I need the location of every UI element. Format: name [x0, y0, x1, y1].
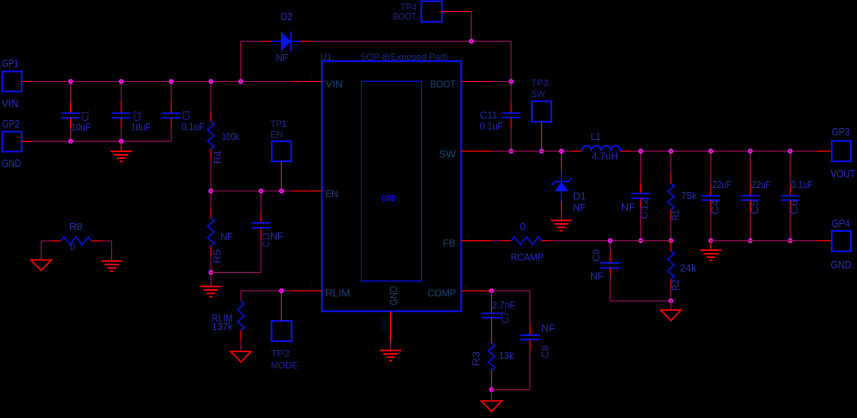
zener diode D1: [560, 151, 562, 171]
node EN-TP1: [280, 189, 284, 193]
connector GP2: [3, 132, 22, 152]
ground at U1 GND pin: [380, 349, 401, 351]
svg-text:7: 7: [309, 283, 313, 290]
pin RLIM of U1: [292, 290, 322, 292]
resistor R1 75k: [670, 151, 672, 173]
svg-text:GP2: GP2: [2, 119, 20, 131]
pin SW of U1: [461, 150, 491, 152]
svg-text:R4: R4: [213, 150, 224, 164]
node R2-C9: [669, 299, 673, 303]
svg-text:13k: 13k: [499, 351, 515, 362]
connector GP3: [817, 150, 832, 152]
node VOUT-C4: [709, 149, 713, 153]
ground at R5: [200, 286, 221, 288]
svg-text:TP2: TP2: [271, 349, 290, 359]
svg-text:FB: FB: [443, 238, 456, 250]
capacitor C7 2.7nF: [491, 291, 493, 314]
svg-text:10uF: 10uF: [131, 122, 151, 133]
test point TP3: [532, 101, 552, 121]
svg-text:TP3: TP3: [531, 78, 548, 88]
pin VIN of U1: [292, 81, 322, 83]
ground at RLIM: [231, 351, 251, 362]
svg-text:2.7nF: 2.7nF: [492, 301, 515, 312]
node FB-R1: [669, 239, 673, 243]
svg-text:D1: D1: [573, 192, 586, 203]
resistor R5 NF: [210, 191, 212, 208]
pin FB of U1: [461, 240, 491, 242]
svg-text:C5: C5: [750, 199, 761, 214]
svg-text:EN: EN: [326, 188, 339, 200]
node R3-C8: [490, 388, 494, 392]
wire GND bus left: [32, 140, 172, 142]
svg-text:RLIM: RLIM: [325, 287, 350, 299]
svg-text:C4: C4: [711, 199, 722, 214]
capacitor C1: [70, 82, 72, 103]
capacitor C12 NF: [640, 151, 642, 183]
capacitor C9 NF: [609, 241, 611, 253]
wire GND pin to ground: [390, 341, 392, 351]
node GND-C6: [788, 239, 792, 243]
node VIN-R4: [209, 80, 213, 84]
svg-text:NF: NF: [590, 271, 604, 282]
svg-text:EN: EN: [271, 130, 284, 140]
wire D2 riser: [240, 41, 242, 81]
svg-text:COMP: COMP: [428, 287, 456, 299]
svg-text:NF: NF: [573, 203, 586, 214]
svg-text:4.7uH: 4.7uH: [592, 151, 618, 162]
svg-text:GND: GND: [380, 317, 389, 331]
svg-text:NF: NF: [221, 232, 234, 243]
ground at output: [710, 241, 712, 251]
wire to D2 anode: [241, 40, 262, 42]
svg-text:C1: C1: [81, 110, 92, 121]
svg-text:R5: R5: [213, 249, 224, 264]
svg-text:BOOT: BOOT: [393, 12, 417, 22]
svg-text:VOUT: VOUT: [831, 168, 856, 180]
svg-text:137k: 137k: [212, 322, 234, 333]
pin EN of U1: [292, 190, 322, 192]
capacitor C3: [170, 82, 172, 103]
wire VIN bus: [32, 81, 292, 83]
svg-text:RCAMP: RCAMP: [511, 252, 544, 263]
svg-text:R8: R8: [69, 222, 83, 233]
resistor R4 100k: [210, 82, 212, 112]
svg-text:GND: GND: [388, 286, 400, 306]
svg-text:C11: C11: [480, 111, 498, 122]
svg-text:VIN: VIN: [2, 98, 19, 110]
capacitor C8 NF: [529, 291, 531, 325]
ground at R8 left: [31, 260, 51, 271]
svg-text:22uF: 22uF: [752, 180, 771, 191]
svg-text:0.1uF: 0.1uF: [480, 121, 503, 132]
IC U1 body: [322, 61, 462, 311]
test point TP4: [421, 1, 442, 22]
svg-text:C12: C12: [639, 197, 650, 219]
wire BOOT riser: [510, 41, 512, 102]
node SW-C11: [509, 149, 512, 153]
svg-text:75k: 75k: [681, 191, 698, 202]
resistor RLIM 137k: [240, 291, 242, 301]
svg-text:TP1: TP1: [271, 119, 287, 129]
node VOUT-C12: [639, 149, 643, 153]
resistor R3 13k: [488, 343, 495, 371]
wire RLIM net: [241, 290, 292, 292]
svg-text:SW: SW: [531, 89, 545, 99]
svg-text:2: 2: [464, 74, 468, 81]
svg-text:1: 1: [464, 143, 468, 150]
svg-text:C9: C9: [591, 249, 602, 262]
svg-text:R2: R2: [671, 279, 682, 291]
svg-text:R3: R3: [472, 351, 483, 367]
wire TP4 riser: [470, 12, 472, 42]
node FB-C12: [639, 239, 643, 243]
capacitor C4 22uF: [710, 151, 712, 185]
pin COMP of U1: [461, 290, 491, 292]
svg-text:3: 3: [309, 74, 313, 81]
node VOUT-R1: [669, 149, 673, 153]
svg-text:U1: U1: [320, 52, 332, 62]
svg-text:100k: 100k: [222, 132, 240, 143]
node SW-D1: [560, 149, 564, 153]
wire C9 bottom: [610, 300, 671, 302]
capacitor C11 0.1uF: [510, 102, 512, 113]
svg-text:0.1uF: 0.1uF: [791, 180, 813, 191]
resistor RCAMP 0: [502, 240, 511, 242]
svg-text:NF: NF: [541, 323, 555, 334]
svg-text:GND: GND: [2, 158, 21, 170]
node BOOT: [509, 80, 512, 84]
node SW-TP3: [540, 149, 544, 153]
svg-text:TP4: TP4: [401, 2, 417, 12]
wire BOOT pin ext: [492, 81, 512, 83]
svg-text:24k: 24k: [680, 263, 697, 274]
wire VOUT bus: [631, 150, 817, 152]
svg-text:C7: C7: [501, 311, 512, 324]
svg-text:NF: NF: [621, 202, 635, 213]
node TP4-BOOT net: [470, 40, 474, 44]
pin BOOT of U1: [461, 81, 491, 83]
node VIN-C1: [69, 80, 73, 84]
svg-text:6: 6: [464, 283, 468, 290]
svg-text:R1: R1: [671, 209, 682, 220]
svg-text:GP3: GP3: [832, 126, 850, 138]
wire R8 right leg: [111, 241, 113, 261]
svg-text:GND: GND: [381, 193, 396, 203]
svg-text:GP1: GP1: [2, 58, 19, 70]
node RLIM-TP2: [280, 289, 284, 293]
capacitor C6 0.1uF: [789, 151, 791, 185]
node R5-C13: [209, 271, 213, 275]
wire EN net: [211, 190, 292, 192]
svg-text:VIN: VIN: [326, 78, 344, 90]
svg-text:SOP-8(Exposed Pad): SOP-8(Exposed Pad): [360, 52, 448, 62]
svg-text:C3: C3: [181, 110, 192, 120]
wire SW net: [492, 150, 573, 152]
exposed pad: [362, 81, 422, 281]
resistor R8 0: [41, 240, 50, 242]
svg-text:MODE: MODE: [271, 361, 298, 371]
svg-text:0: 0: [520, 222, 526, 233]
svg-text:GP4: GP4: [832, 218, 850, 230]
connector GP4: [817, 240, 832, 242]
wire D2 to BOOT riser: [311, 40, 511, 42]
wire FB net right: [551, 240, 671, 242]
capacitor C2: [120, 82, 122, 103]
capacitor C13 NF: [260, 191, 262, 212]
ground at C2: [120, 141, 122, 151]
svg-text:SW: SW: [439, 148, 456, 160]
svg-text:10uF: 10uF: [71, 122, 91, 133]
svg-text:BOOT: BOOT: [430, 78, 456, 90]
test point TP2: [272, 321, 292, 341]
ground at R3: [491, 390, 493, 401]
wire COMP net: [492, 290, 531, 292]
pin GND of U1: [390, 311, 392, 340]
node EN-R5: [209, 189, 213, 193]
svg-text:GND: GND: [831, 259, 852, 271]
node COMP: [490, 289, 494, 293]
svg-text:0.1uF: 0.1uF: [181, 122, 204, 133]
capacitor C5 22uF: [749, 151, 751, 185]
node GND-C2: [119, 140, 123, 144]
inductor L1 4.7uH: [572, 150, 582, 152]
wire C13 to R5: [211, 271, 261, 273]
connector GP1: [3, 72, 22, 92]
svg-text:NF: NF: [276, 53, 288, 64]
node GND-C4: [709, 239, 713, 243]
wire FB net: [491, 240, 502, 242]
svg-text:0: 0: [70, 243, 75, 254]
svg-text:5: 5: [467, 234, 471, 241]
svg-text:C2: C2: [133, 110, 144, 121]
node VOUT-C6: [788, 149, 792, 153]
wire C8 bottom: [492, 389, 531, 391]
ground at R8 right: [101, 260, 122, 262]
node GND-C1: [69, 140, 73, 144]
diode D2: [262, 40, 272, 42]
svg-text:C6: C6: [789, 199, 800, 214]
node VIN-C2: [119, 80, 123, 84]
node EN-C13: [259, 189, 263, 193]
node VIN-D2: [239, 80, 243, 84]
svg-text:L1: L1: [591, 132, 601, 143]
svg-text:D2: D2: [281, 12, 293, 23]
node FB-C9: [608, 239, 612, 243]
node VIN-C3: [169, 80, 173, 84]
ground at R2: [670, 301, 672, 310]
node VOUT-C5: [749, 149, 753, 153]
svg-text:C8: C8: [541, 345, 552, 358]
wire GND bus right: [711, 240, 817, 242]
svg-text:4: 4: [309, 183, 313, 190]
ground at D1: [551, 219, 572, 221]
svg-text:NF: NF: [270, 232, 283, 243]
resistor R2 24k: [670, 241, 672, 251]
svg-text:22uF: 22uF: [712, 180, 731, 191]
wire R8 left leg: [40, 241, 42, 260]
test point TP1: [272, 141, 291, 161]
node GND-C5: [749, 239, 753, 243]
